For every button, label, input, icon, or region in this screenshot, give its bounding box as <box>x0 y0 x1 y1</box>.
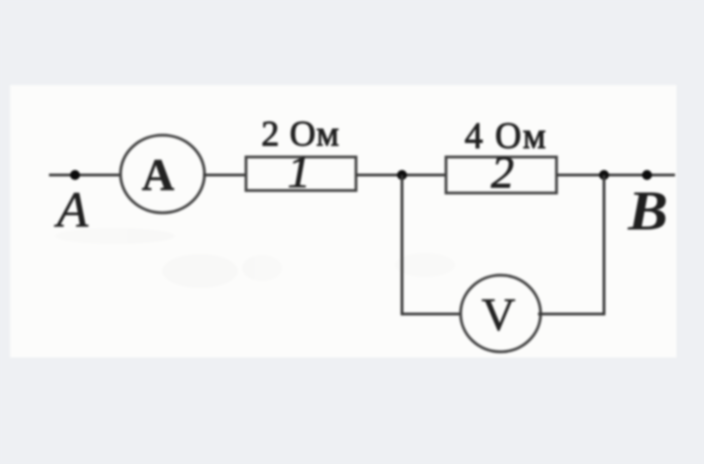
value label 2 Ом <box>261 114 340 154</box>
wire: terminal A to ammeter <box>49 174 122 177</box>
svg-text:V: V <box>482 289 516 341</box>
ammeter A1 <box>121 135 205 213</box>
wire: resistor R2 to terminal B <box>557 174 675 177</box>
wire: junction J1 down to voltmeter branch <box>401 175 404 315</box>
wire: voltmeter to right bottom <box>538 313 605 316</box>
node B label <box>627 181 668 243</box>
wire: junction J2 down to voltmeter branch <box>603 175 606 315</box>
svg-text:A: A <box>142 150 175 200</box>
terminal A dot <box>70 170 80 180</box>
node A label <box>54 183 89 239</box>
svg-text:1: 1 <box>288 146 311 197</box>
wire: left bottom to voltmeter <box>401 313 463 316</box>
wire: ammeter to resistor R1 <box>203 174 246 177</box>
junction J2 <box>599 170 609 180</box>
junction J1 <box>397 170 407 180</box>
terminal B dot <box>642 170 652 180</box>
value label 4 Ом <box>465 115 548 156</box>
wire: resistor R1 to junction J1 <box>356 174 446 177</box>
svg-text:B: B <box>627 181 668 243</box>
resistor R1 <box>246 146 356 197</box>
resistor R2 <box>446 146 557 197</box>
voltmeter V1 <box>461 275 541 352</box>
svg-text:A: A <box>54 183 89 239</box>
svg-text:2: 2 <box>491 146 514 197</box>
